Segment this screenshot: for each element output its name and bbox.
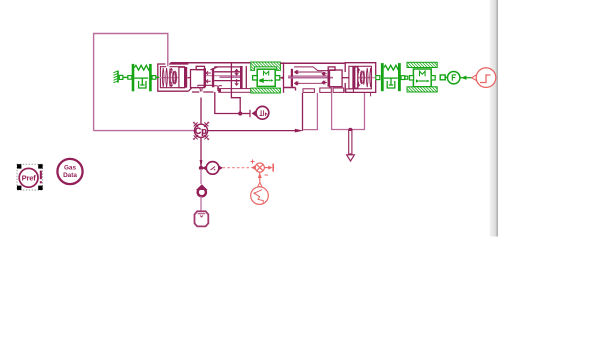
svg-text:Pref: Pref: [22, 173, 37, 182]
displacement gauge circle: [256, 106, 269, 119]
signal source circle: [251, 187, 269, 205]
right plate: [398, 63, 401, 91]
wire: valve port to sensor junction (left leg): [215, 92, 240, 114]
wire: sensor junction down to check valve (light): [200, 169, 202, 184]
right piston: [353, 67, 358, 88]
signal arrow from step source: [460, 77, 472, 79]
bore line below spool block: [197, 84, 214, 86]
sleeve channels left: [214, 72, 240, 81]
valve mass (green) center: [251, 62, 281, 93]
spring top: [384, 65, 400, 70]
wire: valve bottom to Cp top: [200, 98, 202, 125]
tank: [195, 211, 209, 226]
check valve (ball seat): [196, 184, 208, 196]
Cp node circle: [193, 122, 209, 140]
right spring coils (lens stack): [360, 68, 371, 87]
lower rail below block: [192, 91, 214, 93]
exhaust pipe: [347, 131, 355, 162]
link to mass: [401, 76, 405, 80]
wire: junction to second valve leg (light): [303, 93, 317, 130]
right chamber inner sleeve: [349, 66, 372, 89]
arrow on vertical wire: [200, 160, 203, 168]
Gas Data component: [57, 159, 82, 184]
sleeve upper rail left: [170, 62, 250, 64]
rod to right piston: [342, 77, 349, 79]
guide hatch bottom: [407, 87, 437, 92]
channel arrows center-right: [295, 70, 300, 85]
damper rod: [384, 77, 398, 79]
wall stub: [119, 75, 123, 79]
wire: valve to junction vertical: [302, 93, 304, 131]
junction dot at gauge input: [238, 111, 242, 115]
junction dot exhaust: [348, 128, 352, 132]
mass M: [413, 69, 431, 87]
sleeve lower rail left (open channel): [219, 89, 251, 93]
seam line: [230, 62, 232, 92]
svg-text:Gas: Gas: [64, 164, 77, 171]
svg-text:Cp: Cp: [195, 126, 207, 136]
spool rod left: [187, 77, 191, 79]
wire: loop bottom to Cp node: [94, 130, 195, 132]
valve to spring-damper link: [376, 76, 380, 80]
sensor input arrow: [202, 166, 207, 170]
spring top: [134, 65, 150, 70]
spool rod center (light): [220, 76, 242, 78]
spool land bars left: [204, 68, 206, 87]
port arrows left pair: [206, 71, 211, 83]
sleeve lower rail right: [284, 88, 296, 91]
right chamber arrows: [357, 69, 363, 87]
sleeve channels right: [294, 72, 323, 83]
funnel below spool block: [197, 87, 204, 92]
spool rod center right (light): [288, 77, 333, 79]
channel arrows right pair: [322, 72, 327, 84]
pressure sensor circle: [206, 162, 223, 175]
force source F circle: [448, 72, 460, 84]
pilot spring rod (light): [159, 77, 180, 79]
wire: seam bottom to junction (upper leg): [231, 93, 240, 114]
sleeve upper rail right: [280, 62, 344, 64]
pilot piston: [179, 67, 185, 87]
spool block left: [196, 66, 204, 69]
displacement gauge input port: [240, 110, 256, 117]
wire: pilot feedback loop (valve left port to top): [94, 34, 168, 131]
guide hatch top: [407, 62, 437, 67]
signal line sensor to multiplier (dashed red): [223, 167, 251, 169]
flow arrow into junction: [295, 129, 304, 133]
junction dot at sensor: [199, 166, 203, 170]
input arrow from below: [259, 172, 261, 183]
fixed wall (hatched): [114, 71, 119, 83]
svg-text:Data: Data: [63, 172, 77, 179]
spring-damper right plate: [149, 64, 152, 91]
pilot chamber left outer wall: [158, 64, 198, 91]
spring-damper left plate: [128, 76, 132, 80]
exhaust: valve legs to tank pipe: [332, 93, 365, 130]
wire: check valve to tank (light): [200, 197, 202, 213]
right spring rod (light): [356, 77, 376, 79]
spool block right: [330, 70, 343, 87]
link mass to force source: [440, 75, 445, 80]
pilot chamber inner sleeve: [160, 67, 184, 88]
output terminator: [264, 167, 271, 169]
step signal source (red): [472, 68, 496, 88]
multiplier (red X circle): [251, 160, 274, 205]
damper cup and piston: [139, 81, 146, 88]
right spring chamber outer wall: [345, 63, 376, 93]
spool land bar center-right: [283, 62, 285, 93]
second land bar right: [328, 70, 330, 86]
wire: Cp right to actuator junction: [208, 130, 297, 132]
scrollbar / pane divider: [490, 0, 498, 237]
X port marks: [193, 122, 209, 140]
damper cup and piston: [387, 81, 395, 88]
channel arrows center-left: [235, 69, 238, 85]
spool land bar center-left: [240, 66, 243, 89]
wire: Cp bottom to pressure sensor junction: [200, 138, 202, 169]
port boot below channel: [217, 86, 218, 91]
spring-damper right of valve: left plate: [381, 63, 384, 91]
Pref component (selected): [17, 164, 43, 190]
damper rod: [134, 77, 148, 79]
pilot chamber arrows: [170, 69, 177, 87]
pilot spring coils (lens stack): [162, 68, 176, 87]
